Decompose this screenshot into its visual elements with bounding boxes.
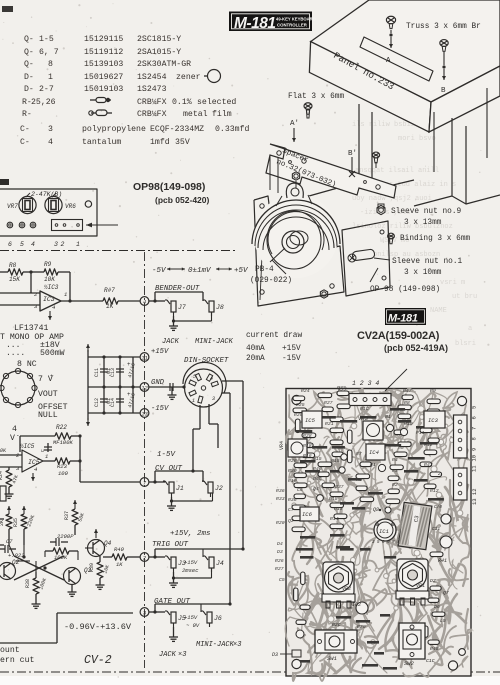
svg-text:D3: D3 [277, 549, 283, 555]
svg-text:IC2: IC2 [352, 602, 361, 608]
svg-text:D3: D3 [272, 652, 278, 658]
svg-text:R41: R41 [438, 558, 447, 564]
potentiometer VR7 [7, 196, 36, 213]
svg-text:1: 1 [76, 241, 80, 248]
label CV OUT [155, 465, 183, 473]
svg-text:6, 7: 6, 7 [39, 48, 59, 57]
resistor R9 feedback [29, 261, 70, 283]
svg-text:5: 5 [20, 241, 24, 248]
svg-text:15K: 15K [9, 276, 20, 283]
svg-text:+: + [50, 373, 54, 380]
svg-text:R6: R6 [356, 477, 362, 483]
svg-text:R24: R24 [0, 471, 4, 480]
svg-text:3: 3 [212, 396, 215, 402]
M-181 header label [229, 12, 316, 33]
svg-text:2msec: 2msec [182, 567, 199, 574]
resistor R38 [25, 572, 48, 608]
svg-text:polypropylene: polypropylene [82, 124, 146, 134]
label DIN-SOCKET [184, 357, 229, 365]
svg-text:0.33mfd: 0.33mfd [215, 124, 249, 134]
ground J3 J4 [169, 568, 212, 587]
svg-text:GND: GND [151, 379, 165, 387]
svg-text:Q-: Q- [24, 35, 34, 44]
label CV-2 [84, 654, 112, 667]
svg-text:4: 4 [52, 304, 55, 311]
svg-text:4: 4 [143, 298, 146, 305]
svg-text:1K: 1K [106, 303, 114, 310]
svg-text:CV OUT: CV OUT [155, 465, 183, 473]
supply rail +15V [151, 348, 169, 356]
svg-text:film: film [212, 109, 232, 119]
label Flat 3 x 6mm [288, 93, 344, 101]
svg-text:R33: R33 [276, 496, 285, 502]
svg-text:+15V: +15V [184, 614, 198, 621]
svg-text:Q4: Q4 [313, 486, 319, 492]
input wires IC5 [0, 448, 22, 467]
svg-text:L5: L5 [440, 618, 446, 624]
svg-text:Truss 3 x 6mm Br: Truss 3 x 6mm Br [406, 23, 481, 31]
svg-text:(pcb 052-420): (pcb 052-420) [155, 195, 209, 205]
svg-text:R4: R4 [392, 457, 398, 463]
spacer plate no.32 [266, 144, 396, 198]
capacitor C12 [94, 398, 112, 407]
chassis legs [309, 88, 500, 206]
svg-text:1: 1 [192, 398, 195, 404]
svg-text:R15: R15 [329, 496, 338, 502]
label BENDER-OUT [155, 285, 200, 293]
svg-text:R3: R3 [392, 468, 398, 474]
svg-text:R12: R12 [430, 488, 439, 494]
pcb bottom jumper bars [300, 641, 397, 670]
label 1-5V [157, 451, 177, 459]
svg-text:+15V, 2ms: +15V, 2ms [170, 530, 211, 538]
resistor R8 [0, 262, 31, 283]
pcb IC1 can [372, 519, 400, 545]
svg-text:R25: R25 [296, 402, 305, 408]
svg-text:SW2: SW2 [404, 660, 415, 667]
resistor icon row R- metal film [89, 110, 112, 116]
svg-text:9: 9 [471, 448, 478, 451]
cross coupling wires [9, 545, 64, 580]
svg-text:zener: zener [176, 73, 201, 82]
svg-text:1S2473: 1S2473 [137, 85, 167, 94]
svg-text:current draw: current draw [246, 332, 302, 340]
label GATE OUT [154, 598, 191, 606]
svg-text:C14: C14 [110, 398, 116, 407]
svg-text:500mW: 500mW [40, 349, 65, 358]
svg-text:25,26: 25,26 [31, 98, 56, 107]
svg-text:40mA: 40mA [246, 345, 265, 353]
svg-text:A': A' [290, 120, 299, 128]
svg-text:R28: R28 [303, 433, 312, 439]
svg-text:R29: R29 [357, 624, 366, 630]
pcb corner holes [292, 395, 467, 670]
jack J2 [202, 481, 223, 497]
svg-text:R24: R24 [301, 388, 310, 394]
svg-text:N15: N15 [313, 456, 322, 462]
jack J5 [165, 611, 200, 629]
svg-text:R9: R9 [430, 388, 436, 394]
svg-text:C11: C11 [432, 526, 440, 532]
slot A on panel [360, 37, 433, 81]
svg-text:LF13741: LF13741 [14, 324, 48, 333]
svg-text:J4: J4 [216, 560, 224, 567]
potentiometer VR6 [45, 196, 76, 213]
svg-text:M-181: M-181 [234, 15, 275, 32]
node 12 GND [88, 379, 184, 391]
svg-text:MINI-JACK: MINI-JACK [195, 338, 234, 346]
node 2 [140, 553, 149, 562]
svg-text:3 x 13mm: 3 x 13mm [404, 219, 442, 227]
svg-text:IC3: IC3 [428, 417, 439, 424]
label Panel no.233 [332, 50, 397, 93]
pcb traces [285, 388, 471, 681]
svg-text:4: 4 [210, 376, 213, 382]
node 3 [140, 608, 149, 617]
jacks on sub-panel [7, 222, 36, 228]
svg-text:½IC5: ½IC5 [20, 443, 35, 450]
svg-text:P11: P11 [416, 430, 425, 436]
wires flipflop [16, 551, 78, 572]
svg-text:R46: R46 [313, 466, 322, 472]
resistors left bank [0, 506, 36, 545]
connector block on sub-panel [52, 220, 83, 231]
svg-text:CV2A(159-002A): CV2A(159-002A) [357, 330, 440, 342]
svg-text:MINI-JACK: MINI-JACK [196, 641, 235, 649]
svg-text:10: 10 [471, 455, 478, 462]
resistor R39 [89, 556, 111, 589]
svg-text:0K: 0K [0, 448, 7, 454]
svg-text:MF100K: MF100K [53, 439, 74, 446]
svg-text:R26: R26 [275, 558, 284, 564]
wires node7 jacks [149, 469, 203, 483]
svg-text:8: 8 [471, 437, 478, 440]
pcb SW1 [315, 630, 357, 662]
svg-text:R27: R27 [275, 566, 284, 572]
svg-text:5: 5 [193, 374, 196, 380]
label JACK [162, 338, 180, 346]
svg-text:R21: R21 [325, 421, 334, 427]
bracket plate right with sleeve nut [342, 221, 390, 296]
svg-text:R14: R14 [330, 516, 339, 522]
svg-text:mori bsvo: mori bsvo [398, 135, 436, 143]
svg-text:13 12: 13 12 [471, 488, 478, 505]
svg-text:VR2: VR2 [342, 586, 351, 592]
jack J7 [165, 300, 186, 316]
pcb board CV2A outline [286, 389, 471, 677]
svg-text:ut bru: ut bru [452, 293, 477, 301]
svg-text:5: 5 [471, 406, 478, 409]
svg-text:R2C: R2C [332, 622, 341, 628]
svg-text:1: 1 [48, 73, 53, 82]
op-amp IC3 [34, 284, 67, 320]
svg-text:D6: D6 [434, 604, 440, 610]
pcb IC6 [300, 507, 319, 521]
svg-text:N1: N1 [385, 414, 391, 420]
label MINI-JACK X3 [196, 641, 241, 649]
svg-text:SW1: SW1 [327, 655, 337, 662]
svg-text:C7: C7 [6, 538, 13, 545]
svg-text:R27: R27 [324, 400, 333, 406]
svg-text:JACK: JACK [159, 651, 177, 659]
svg-text:TRIG OUT: TRIG OUT [152, 541, 189, 549]
pcb labels upper [275, 385, 441, 583]
svg-text:R13: R13 [334, 506, 343, 512]
ground on GND rail [168, 383, 186, 399]
capacitor C11 [94, 368, 112, 377]
svg-text:2SA1015-Y: 2SA1015-Y [137, 48, 181, 57]
hex nut lower [320, 290, 327, 298]
capacitor C14 [110, 391, 137, 409]
svg-text:C13: C13 [110, 368, 116, 377]
svg-text:6: 6 [8, 241, 12, 248]
chain line bottom [0, 671, 500, 673]
label MINI-JACK [195, 338, 234, 346]
svg-text:CRB¼FX: CRB¼FX [137, 98, 167, 107]
svg-text:~ 0V: ~ 0V [186, 622, 200, 629]
svg-text:1-5V: 1-5V [157, 451, 177, 459]
svg-text:IC4: IC4 [369, 449, 379, 456]
resistor R40 [103, 546, 140, 568]
pcb VR2 pot [322, 562, 355, 608]
svg-text:C6: C6 [297, 487, 303, 493]
svg-text:15019103: 15019103 [84, 85, 123, 94]
chain line vertical connector [144, 252, 146, 668]
svg-text:OP98(149-098): OP98(149-098) [133, 181, 205, 193]
pcb top connector [338, 369, 407, 406]
pcb IC5 [302, 411, 322, 428]
label Truss 3 x 6mm Br [406, 23, 481, 31]
wires node2 jacks [149, 547, 245, 558]
svg-text:C11: C11 [94, 368, 100, 377]
svg-text:12: 12 [141, 384, 148, 391]
svg-text:metal: metal [183, 109, 208, 119]
svg-text:B': B' [348, 150, 357, 158]
label TRIG OUT [152, 541, 189, 549]
label B-prime with arrow [348, 150, 357, 177]
svg-text:Flat 3 x 6mm: Flat 3 x 6mm [288, 93, 344, 101]
wires DIN to verticals [193, 381, 243, 604]
svg-text:R45: R45 [430, 646, 439, 652]
svg-text:J2: J2 [215, 485, 223, 492]
svg-text:0.1%: 0.1% [172, 98, 192, 107]
svg-text:R12: R12 [424, 442, 433, 448]
range note box [0, 613, 133, 643]
svg-text:-15V: -15V [282, 355, 301, 363]
jack J4 [203, 556, 224, 572]
svg-text:R22: R22 [56, 424, 67, 431]
svg-text:+15V: +15V [282, 345, 301, 353]
label Spacer no.32(073-032) [275, 147, 337, 189]
svg-text:JACK: JACK [162, 338, 180, 346]
label +15V 2ms [170, 530, 211, 538]
svg-text:NAME: NAME [430, 307, 447, 315]
svg-text:6: 6 [471, 416, 478, 419]
arrow into connector [86, 223, 118, 228]
node 13 -15V [88, 405, 169, 417]
wires node3 jacks [149, 602, 232, 613]
svg-text:ECQF-2334MZ: ECQF-2334MZ [150, 125, 204, 134]
resistor R22 [20, 424, 82, 452]
svg-text:Q-: Q- [24, 48, 34, 57]
ground Q3 [68, 585, 77, 596]
svg-text:GATE OUT: GATE OUT [154, 598, 191, 606]
svg-text:D-: D- [24, 73, 34, 82]
label Sleeve nut no.9 [391, 208, 462, 227]
svg-text:R18: R18 [303, 443, 312, 449]
transistor Q3 [64, 567, 92, 585]
pcb IC2 [352, 602, 368, 614]
svg-text:3: 3 [54, 241, 58, 248]
svg-text:R8: R8 [404, 400, 410, 406]
svg-text:1K: 1K [116, 561, 123, 568]
led hole [85, 201, 91, 207]
svg-text:1: 1 [64, 291, 67, 298]
svg-text:R16: R16 [303, 453, 312, 459]
svg-text:a: a [468, 325, 472, 333]
label CV2A (159-002A) [357, 330, 440, 342]
svg-text:....: .... [6, 349, 25, 358]
svg-text:R9: R9 [44, 261, 52, 268]
wire IC5 out to node 7 [80, 436, 140, 482]
hex nut upper [292, 172, 299, 188]
svg-text:1 2 3 4: 1 2 3 4 [352, 380, 379, 387]
svg-text:J6: J6 [214, 615, 222, 622]
op-amp can package [0, 360, 68, 443]
svg-text:V: V [10, 434, 15, 443]
label Binding 3 x 6mm [400, 235, 471, 243]
svg-text:DIN-SOCKET: DIN-SOCKET [184, 357, 229, 365]
page corner mark [2, 6, 13, 12]
capacitor C7 [0, 538, 25, 559]
svg-text:11: 11 [471, 465, 478, 472]
svg-text:4: 4 [48, 138, 53, 147]
capacitor across IC5 [40, 443, 52, 452]
svg-text:M-181: M-181 [388, 313, 418, 325]
svg-text:C/0: C/0 [434, 504, 442, 510]
svg-text:R35: R35 [13, 518, 19, 527]
pcb transistors D1 Q1 [317, 424, 408, 501]
svg-text:R29: R29 [294, 412, 303, 418]
label Sleeve nut no.1 [374, 258, 463, 277]
svg-text:J8: J8 [216, 304, 224, 311]
svg-text:VOUT: VOUT [38, 390, 58, 399]
svg-text:8 NC: 8 NC [17, 360, 37, 369]
label A-prime with arrow [290, 120, 299, 142]
svg-text:C1C: C1C [426, 658, 435, 664]
svg-text:R23: R23 [57, 463, 68, 470]
svg-text:Q8: Q8 [373, 507, 379, 513]
left edge marks [0, 486, 6, 545]
svg-text:D4: D4 [277, 541, 283, 547]
svg-text:49-KEY KEYBOARD: 49-KEY KEYBOARD [276, 17, 316, 22]
svg-text:PB-4: PB-4 [255, 266, 274, 274]
svg-text:selected: selected [197, 97, 236, 107]
svg-text:J7: J7 [178, 304, 186, 311]
svg-text:11: 11 [141, 354, 148, 361]
svg-text:J1: J1 [176, 485, 184, 492]
svg-text:R38: R38 [25, 579, 31, 588]
svg-text:(pcb 052-419A): (pcb 052-419A) [384, 343, 448, 353]
ground below J7 [169, 321, 178, 330]
partial note text [0, 646, 34, 665]
svg-text:-15V: -15V [151, 405, 169, 413]
svg-text:3 x 10mm: 3 x 10mm [404, 269, 442, 277]
wire feedback to output [31, 272, 72, 303]
resistor icon row R-25,26 [90, 98, 111, 103]
pcb lower small parts [272, 548, 449, 664]
svg-text:NULL: NULL [38, 411, 58, 420]
svg-text:+15V: +15V [151, 348, 169, 356]
resistor R37 [64, 500, 86, 535]
svg-text:IC5: IC5 [28, 459, 40, 466]
svg-text:R40: R40 [114, 546, 125, 553]
svg-text:VR1: VR1 [416, 583, 425, 589]
pcb Q8 [373, 507, 391, 513]
leader lines from plate [270, 155, 278, 193]
svg-text:2SC1815-Y: 2SC1815-Y [137, 35, 181, 44]
LF13741 note [0, 324, 65, 358]
svg-text:20mA: 20mA [246, 355, 265, 363]
pcb IC3 [424, 411, 445, 428]
svg-text:R32: R32 [337, 385, 346, 391]
svg-text:4: 4 [34, 466, 37, 473]
wire J7 J8 bottom [172, 312, 212, 323]
svg-text:15129115: 15129115 [84, 35, 123, 44]
binding screw icon [388, 233, 395, 244]
pcb VR4 [279, 439, 307, 457]
svg-text:7: 7 [471, 427, 478, 430]
svg-text:VR6: VR6 [65, 203, 76, 210]
pcb VR1 pot [396, 559, 429, 605]
pin numbers under sub-panel [8, 241, 80, 248]
chain line horizontal top [0, 250, 237, 252]
svg-text:R4C: R4C [313, 476, 322, 482]
pcb C3 electrolytic [396, 502, 432, 550]
svg-text:100: 100 [58, 470, 69, 477]
screw small right [372, 152, 379, 168]
svg-text:3: 3 [48, 125, 53, 134]
svg-text:IC6: IC6 [302, 511, 313, 518]
svg-text:R5: R5 [398, 445, 404, 451]
edge mark top left [0, 179, 9, 185]
svg-text:R15: R15 [331, 458, 340, 464]
resistor R24 47K [0, 467, 20, 498]
svg-text:ern cut: ern cut [0, 656, 34, 665]
hex nut sleeve no9 [377, 204, 385, 215]
ghost bleed-through text [352, 57, 477, 348]
svg-text:-: - [16, 432, 20, 439]
svg-text:Q-: Q- [24, 60, 34, 69]
pcb C10 C11 caps right [430, 504, 452, 564]
svg-text:1-5: 1-5 [39, 35, 54, 44]
label pcb 052-420 [155, 195, 209, 205]
svg-text:Q7: Q7 [443, 590, 449, 596]
svg-text:IC5: IC5 [305, 417, 316, 424]
svg-text:R26: R26 [288, 458, 297, 464]
svg-text:VR4: VR4 [279, 441, 285, 450]
svg-text:R20: R20 [276, 520, 285, 526]
node 11 [88, 353, 149, 362]
svg-text:A: A [386, 57, 391, 65]
svg-text:15019627: 15019627 [84, 73, 123, 82]
svg-text:2: 2 [61, 241, 65, 248]
svg-text:C12: C12 [94, 398, 100, 407]
svg-text:35V: 35V [175, 138, 190, 147]
op-amp IC5 [16, 443, 48, 481]
svg-text:D-: D- [24, 85, 34, 94]
capacitor C8 2200P [50, 533, 74, 546]
